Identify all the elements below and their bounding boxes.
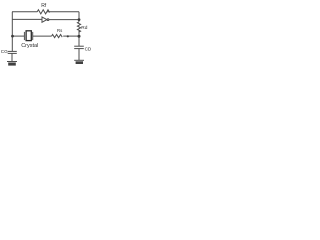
wire right vertical upper — [78, 12, 80, 22]
crystal body box — [26, 31, 31, 41]
wire inverter output — [49, 19, 79, 21]
wire right vertical lower — [78, 31, 80, 46]
ground right horizontal line — [74, 59, 84, 61]
wire top horizontal right of Rf — [47, 11, 79, 13]
svg-text:Rf: Rf — [41, 3, 47, 9]
node junction crystal line right — [78, 35, 81, 38]
op-amp U1 bubble — [47, 19, 49, 21]
op-amp U1 inverter triangle — [42, 17, 47, 22]
wire top-left vertical — [11, 12, 13, 51]
node junction small right of Rs — [67, 35, 69, 37]
ground right hatch bar — [76, 61, 83, 64]
ground left horizontal line — [7, 61, 17, 63]
wire inverter input — [12, 18, 42, 20]
ground left hatch bar — [8, 63, 16, 66]
resistor Rd vertical — [77, 22, 80, 32]
capacitor CG bottom plate — [8, 52, 17, 54]
capacitor CD bottom plate — [74, 48, 84, 50]
crystal left plate — [23, 32, 25, 40]
resistor Rf — [37, 10, 49, 14]
wire top horizontal left of Rf — [12, 11, 37, 13]
crystal right plate — [32, 32, 34, 40]
svg-text:CD: CD — [85, 46, 92, 51]
node junction crystal line left — [11, 35, 14, 38]
svg-text:CG: CG — [1, 49, 8, 54]
resistor Rs horizontal — [52, 35, 63, 38]
capacitor CG top plate — [8, 50, 17, 52]
wire crystal to Rs — [33, 35, 52, 37]
capacitor CD top plate — [74, 45, 84, 47]
svg-text:Rs: Rs — [57, 28, 62, 33]
wire Rs to right vertical — [63, 35, 79, 37]
wire cap CD to ground — [78, 49, 80, 61]
wire cap CG to ground — [11, 53, 13, 61]
wire crystal line left — [12, 35, 24, 37]
node junction inverter output — [78, 18, 81, 21]
svg-text:Rd: Rd — [81, 25, 87, 31]
svg-text:Crystal: Crystal — [21, 43, 38, 49]
